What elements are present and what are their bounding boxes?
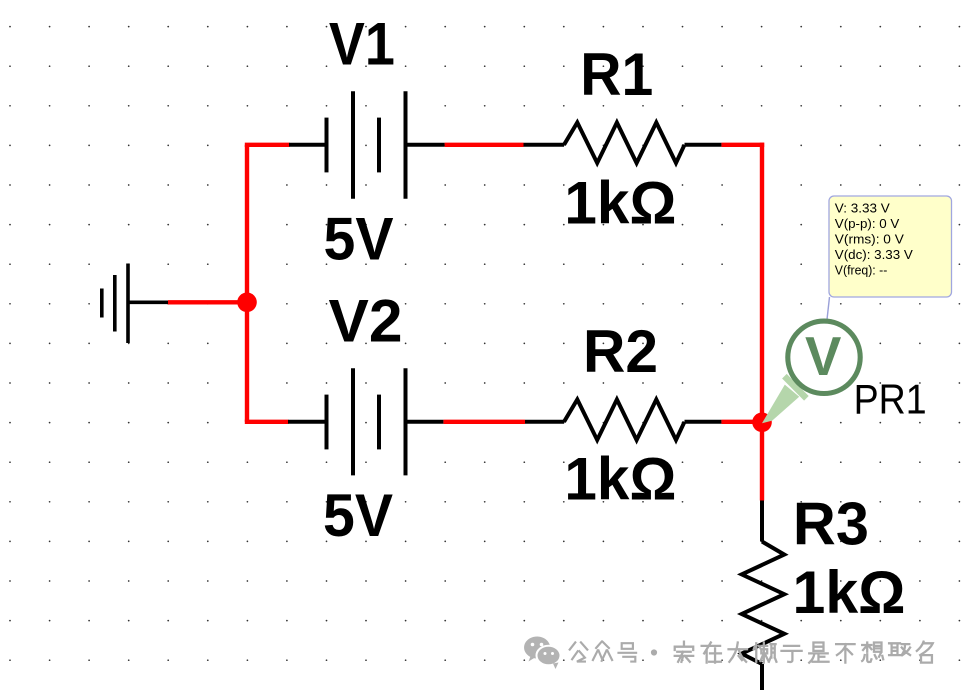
svg-text:V1: V1 xyxy=(329,10,395,78)
wire left vertical xyxy=(245,145,249,422)
probe PR1 readout box xyxy=(829,196,952,297)
wire top left xyxy=(245,143,290,147)
battery V1 xyxy=(289,91,445,199)
junction node PR1 xyxy=(752,413,772,433)
ground xyxy=(102,264,169,344)
probe PR1 needle xyxy=(762,385,799,424)
svg-text:1kΩ: 1kΩ xyxy=(793,558,906,626)
resistor R1 xyxy=(524,123,722,164)
junction node left xyxy=(237,293,257,313)
watermark wechat logo xyxy=(524,637,550,662)
wire R2 to node xyxy=(721,420,762,424)
svg-text:V: V xyxy=(805,326,841,387)
probe PR1 collar band xyxy=(782,374,809,401)
resistor R3 xyxy=(742,501,785,690)
wire V1 to R1 xyxy=(445,143,524,147)
svg-text:V(freq): --: V(freq): -- xyxy=(835,262,888,277)
battery V2 xyxy=(288,368,443,475)
wire right vertical xyxy=(760,143,764,501)
probe PR1 circle xyxy=(788,321,860,393)
svg-text:R2: R2 xyxy=(583,317,658,385)
svg-text:5V: 5V xyxy=(323,481,393,549)
svg-text:R3: R3 xyxy=(793,489,869,557)
svg-text:V(p-p): 0 V: V(p-p): 0 V xyxy=(835,216,900,231)
resistor R2 xyxy=(525,400,721,441)
svg-text:V2: V2 xyxy=(329,287,403,355)
svg-text:PR1: PR1 xyxy=(854,376,927,423)
watermark text xyxy=(570,642,933,663)
wire V2 left xyxy=(245,420,289,424)
svg-text:R1: R1 xyxy=(580,40,653,108)
svg-text:V: 3.33 V: V: 3.33 V xyxy=(835,200,890,215)
svg-text:V(dc): 3.33 V: V(dc): 3.33 V xyxy=(835,247,913,262)
svg-text:1kΩ: 1kΩ xyxy=(564,168,676,236)
probe PR1 leader line xyxy=(827,297,830,320)
svg-text:1kΩ: 1kΩ xyxy=(564,444,676,512)
wire R1 to corner xyxy=(721,143,764,147)
svg-text:5V: 5V xyxy=(324,205,394,273)
wire ground to node xyxy=(168,300,249,304)
wire V2 to R2 xyxy=(443,420,525,424)
svg-text:V(rms): 0 V: V(rms): 0 V xyxy=(835,232,904,247)
